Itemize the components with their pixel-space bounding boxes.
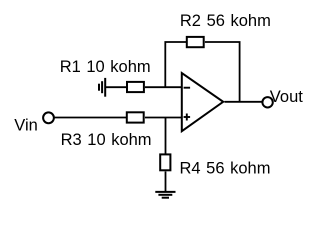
wire R3 to op-amp non-inverting input (145, 117, 181, 119)
svg-text:R1 10 kohm: R1 10 kohm (60, 58, 151, 76)
svg-text:Vin: Vin (14, 117, 38, 135)
resistor R2 (187, 37, 204, 47)
op-amp non-inverting input marker (184, 114, 191, 121)
op-amp U1 (182, 73, 223, 131)
svg-text:R3 10 kohm: R3 10 kohm (61, 131, 152, 149)
ground (left, at R1 input) (99, 78, 105, 97)
op-amp inverting input marker (184, 87, 191, 89)
wire R1 to op-amp inverting input (145, 86, 181, 88)
wire junction down to R4 (165, 118, 167, 154)
wire ground to R1 (105, 86, 126, 88)
svg-text:R4 56 kohm: R4 56 kohm (180, 159, 271, 177)
resistor R3 (127, 112, 144, 122)
wire feedback left vertical + top left segment (165, 42, 186, 87)
wire R4 to ground (165, 172, 167, 192)
node Vin terminal (43, 112, 54, 123)
node Vout terminal (262, 97, 272, 107)
wire feedback top right segment + right vertical to output (205, 42, 240, 102)
svg-text:Vout: Vout (270, 88, 303, 106)
svg-text:R2 56 kohm: R2 56 kohm (180, 12, 271, 30)
resistor R1 (127, 82, 144, 92)
wire op-amp output to Vout (225, 101, 263, 103)
wire Vin to R3 (54, 117, 126, 119)
resistor R4 (160, 154, 170, 170)
ground (bottom, at R4) (155, 192, 175, 198)
